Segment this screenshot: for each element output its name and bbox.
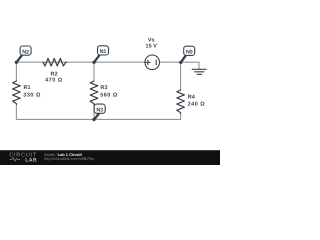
wire top horizontal N2 to voltage source (16, 61, 145, 63)
wire middle vertical lower (93, 104, 95, 119)
svg-text:R3: R3 (100, 85, 107, 91)
resistor R4 zigzag (177, 90, 185, 113)
resistor R3 zigzag (90, 81, 98, 104)
svg-text:470 Ω: 470 Ω (45, 78, 63, 84)
voltage source plus sign (146, 60, 150, 64)
svg-text:330 Ω: 330 Ω (23, 92, 41, 98)
junction dot N3 (92, 118, 95, 121)
wire bottom horizontal (16, 118, 180, 120)
svg-text:15 V: 15 V (146, 43, 158, 49)
svg-text:R1: R1 (24, 85, 31, 91)
footer bar (0, 150, 220, 165)
node N2 pointer (16, 56, 21, 63)
node N3 label box (94, 104, 105, 113)
node N0 pointer (181, 56, 186, 63)
node N3 pointer (94, 114, 99, 120)
svg-text:N2: N2 (22, 49, 29, 55)
wire left vertical lower (15, 104, 17, 119)
junction dot N2 (15, 61, 18, 64)
node N2 label box (20, 46, 31, 55)
svg-text:N0: N0 (186, 50, 193, 56)
svg-text:560 Ω: 560 Ω (100, 92, 118, 98)
svg-text:240 Ω: 240 Ω (188, 102, 206, 108)
wire left vertical upper (15, 62, 17, 81)
resistor R2 zigzag (43, 58, 67, 66)
ground symbol (192, 69, 206, 74)
resistor R1 zigzag (13, 81, 21, 104)
wire right vertical lower (180, 113, 182, 119)
svg-text:N1: N1 (100, 49, 107, 55)
node N1 label box (98, 46, 109, 55)
footer logo wave (10, 158, 21, 162)
junction dot N0 (179, 61, 182, 64)
svg-text:R4: R4 (188, 95, 196, 101)
svg-text:N3: N3 (96, 108, 103, 114)
svg-text:LAB: LAB (25, 157, 37, 163)
node N0 label box (184, 46, 195, 55)
wire middle vertical upper (93, 62, 95, 81)
wire voltage source to N0 and ground stub (159, 62, 199, 69)
svg-text:http://circuitlab.com/c6fk75q: http://circuitlab.com/c6fk75q (44, 156, 94, 161)
voltage source minus sign (rotated) (155, 60, 157, 65)
voltage source V1 circle (145, 55, 160, 70)
wire right vertical upper (180, 62, 182, 90)
node N1 pointer (94, 55, 99, 62)
junction dot N1 (92, 61, 95, 64)
